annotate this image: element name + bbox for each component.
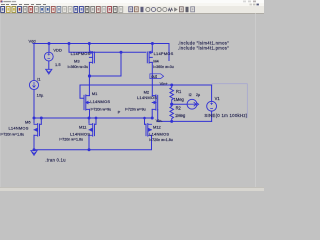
junction R2 bottom on Vin- <box>170 120 173 123</box>
svg-text:l=720n w=1.8u: l=720n w=1.8u <box>59 137 83 141</box>
svg-text:out: out <box>151 74 158 79</box>
nmos M12 body <box>146 124 152 137</box>
wire V2 bottom lead <box>48 61 50 69</box>
junction M11 drain on tail line <box>88 117 91 120</box>
svg-text:M12: M12 <box>153 124 162 129</box>
junction M3 drain / M1 drain <box>88 74 91 77</box>
svg-text:P: P <box>118 110 121 115</box>
wire Vin- line <box>158 120 212 122</box>
junction R1 top on Vin+ <box>170 84 173 87</box>
wire V1 top lead <box>211 85 213 101</box>
wire M3 diode tie <box>90 52 122 76</box>
wire M2 source lead <box>151 109 153 118</box>
wire V2 top lead <box>48 44 50 53</box>
wire out column M4 drain to M2 drain <box>151 62 153 95</box>
wire M4 source lead <box>151 44 153 53</box>
wire M1 source lead <box>89 109 91 118</box>
wire M1 gate hook <box>80 85 84 98</box>
wire I1 branch upper <box>33 44 35 81</box>
svg-text:M11: M11 <box>79 124 87 129</box>
wire M3 drain to M1 drain <box>88 62 90 95</box>
ground symbol under V2 <box>46 69 52 74</box>
wire V1 bottom lead <box>211 111 213 121</box>
net flag out <box>150 74 164 79</box>
svg-text:l=360n w=3u: l=360n w=3u <box>153 65 174 69</box>
svg-text:10µ: 10µ <box>37 93 44 98</box>
svg-text:M1: M1 <box>92 91 98 96</box>
ground symbol bottom-left <box>31 151 37 156</box>
svg-text:l=720n w=1.8u: l=720n w=1.8u <box>149 138 173 142</box>
wire M11 gate hook <box>95 118 97 124</box>
junction M3 gate branch on Vdd rail <box>68 42 71 45</box>
wire Vin+ line <box>80 84 212 86</box>
svg-text:M4: M4 <box>153 58 159 63</box>
wire M6 gate hook <box>40 118 42 124</box>
svg-text:.tran 0.1u: .tran 0.1u <box>45 158 66 163</box>
resistor R2 <box>170 104 174 121</box>
wire R divider mid to I2 <box>172 103 187 105</box>
wire M12 source lead <box>151 135 153 140</box>
current source I1 circle <box>29 80 38 89</box>
svg-text:l=720n w=1.8u: l=720n w=1.8u <box>1 132 25 136</box>
junction V2 on Vdd rail <box>48 42 51 45</box>
junction M11 source on ground rail <box>88 148 91 151</box>
svg-text:l=360n w=3u: l=360n w=3u <box>68 65 89 69</box>
svg-text:SINE(0 1m 100kHz): SINE(0 1m 100kHz) <box>204 113 247 118</box>
wire M6 source lead <box>33 135 35 149</box>
svg-text:VIn+: VIn+ <box>160 81 169 86</box>
svg-text:R2: R2 <box>176 106 182 111</box>
svg-text:R1: R1 <box>176 89 182 94</box>
svg-text:1Meg: 1Meg <box>174 97 185 102</box>
pmos M4 body <box>147 51 152 63</box>
junction R1-R2 midpoint <box>170 103 173 106</box>
svg-text:L14PMOS: L14PMOS <box>154 51 174 56</box>
junction M3 source on Vdd rail <box>88 42 91 45</box>
resistor R1 <box>170 85 174 104</box>
junction M4 source on Vdd rail <box>151 42 154 45</box>
svg-text:L14NMOS: L14NMOS <box>70 131 90 136</box>
junction M12 gate hook <box>143 117 146 120</box>
svg-text:M3: M3 <box>74 58 80 63</box>
wire ground rail bottom <box>34 140 152 150</box>
svg-text:L14NMOS: L14NMOS <box>149 131 169 136</box>
junction I1 to M6 drain <box>33 117 36 120</box>
svg-text:VDD: VDD <box>53 47 62 52</box>
pmos M3 body <box>89 51 94 63</box>
svg-text:V1: V1 <box>215 96 221 101</box>
junction mirror gate line <box>120 51 123 54</box>
wire M3 source lead <box>88 44 90 53</box>
svg-text:M2: M2 <box>144 90 150 95</box>
junction M11 gate hook <box>95 117 98 120</box>
nmos M2 body <box>152 95 158 110</box>
nmos M11 body <box>89 124 95 137</box>
current source I2 circle <box>187 99 197 109</box>
svg-text:M6: M6 <box>25 119 31 124</box>
wire M6 drain stub <box>33 118 35 123</box>
wire VDD top rail <box>33 44 169 61</box>
svg-text:1.5: 1.5 <box>55 62 61 67</box>
voltage source V2 VDD circle <box>44 52 53 61</box>
wire mirror/tail line <box>34 117 152 119</box>
wire I1 branch lower <box>33 90 35 118</box>
svg-text:1Meg: 1Meg <box>175 113 186 118</box>
nmos M6 body <box>34 124 40 137</box>
wire M11 drain stub <box>88 118 90 123</box>
window left border <box>0 13 1 187</box>
svg-text:VIn-: VIn- <box>156 118 164 123</box>
svg-text:2µ: 2µ <box>196 93 200 97</box>
junction node P tail <box>151 117 154 120</box>
faint right loop wire <box>212 84 248 118</box>
svg-text:l=720n w=9u: l=720n w=9u <box>125 107 146 111</box>
svg-text:L14NMOS: L14NMOS <box>9 125 29 130</box>
svg-text:I2: I2 <box>189 93 192 97</box>
svg-text:Vdd: Vdd <box>29 39 36 44</box>
junction M6 gate hook <box>40 117 43 120</box>
svg-text:L14PMOS: L14PMOS <box>71 51 91 56</box>
svg-text:I1: I1 <box>37 76 41 81</box>
svg-text:l=720n w=9u: l=720n w=9u <box>91 107 112 111</box>
wire pmos gate line <box>69 44 146 53</box>
voltage source V1 circle <box>207 101 217 111</box>
wire M2 gate hook <box>157 110 159 122</box>
window right border <box>255 13 256 187</box>
svg-text:.include "lsim4t1.pmos": .include "lsim4t1.pmos" <box>178 45 229 50</box>
svg-text:L14NMOS: L14NMOS <box>137 95 157 100</box>
wire M12 gate hook <box>144 118 146 124</box>
svg-text:L14NMOS: L14NMOS <box>90 99 110 104</box>
junction ground rail left <box>33 148 36 151</box>
nmos M1 body <box>84 95 90 110</box>
wire M11 source lead <box>88 135 90 149</box>
